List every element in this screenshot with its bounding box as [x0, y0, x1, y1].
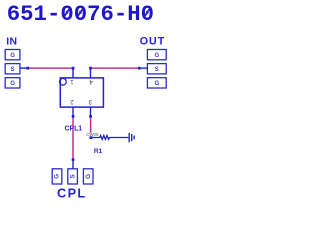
- ground bar 2: [131, 134, 133, 141]
- svg-text:IN: IN: [6, 36, 17, 47]
- slash of zero 2: [78, 9, 83, 17]
- pin 2 lead: [72, 107, 74, 116]
- OUT pad box G (top): [147, 50, 166, 60]
- wire to CPL junction dot: [72, 158, 75, 161]
- IN port stub: [20, 67, 27, 69]
- CPL port stub: [72, 161, 74, 169]
- wire pin 2 to CPL port: [72, 118, 74, 158]
- svg-text:OUT: OUT: [140, 35, 166, 47]
- CPL pad box S (middle): [68, 169, 78, 184]
- svg-text:S: S: [155, 67, 159, 73]
- junction dot pin 4: [89, 67, 92, 70]
- slash of zero 1: [64, 9, 69, 17]
- svg-text:CPL: CPL: [57, 186, 87, 200]
- OUT pad box G (bottom): [147, 78, 166, 88]
- ground bar 3: [133, 136, 135, 140]
- svg-text:R1: R1: [94, 148, 103, 155]
- svg-text:CW05: CW05: [86, 132, 99, 137]
- junction dot at IN port: [26, 67, 29, 70]
- junction dot at R1: [90, 136, 93, 139]
- svg-text:2: 2: [70, 98, 74, 105]
- svg-text:S: S: [69, 174, 76, 179]
- junction dot pin 2: [72, 115, 75, 118]
- junction dot pin 3: [89, 115, 92, 118]
- slash of zero 3: [144, 9, 149, 17]
- polarity circle: [60, 78, 67, 85]
- IN pad box G (bottom): [5, 78, 20, 88]
- CPL pad box G (left): [52, 169, 62, 184]
- coupler U1 body: [60, 78, 103, 107]
- resistor R1: [91, 136, 128, 140]
- pin 4 lead: [90, 68, 92, 78]
- svg-text:G: G: [54, 174, 61, 179]
- CPL pad box G (right): [83, 169, 93, 184]
- pin 1 lead: [72, 68, 74, 78]
- svg-text:G: G: [10, 81, 15, 87]
- ground bar 1: [128, 133, 130, 143]
- svg-text:G: G: [154, 81, 159, 87]
- svg-text:3: 3: [88, 98, 92, 105]
- svg-text:G: G: [10, 53, 15, 59]
- svg-text:651-0076-H0: 651-0076-H0: [7, 1, 154, 27]
- svg-text:S: S: [11, 67, 15, 73]
- wire IN to pin 1: [29, 67, 72, 69]
- junction dot at OUT port: [138, 67, 141, 70]
- OUT pad box S: [147, 64, 166, 74]
- svg-text:G: G: [85, 174, 92, 179]
- svg-text:4: 4: [89, 78, 93, 85]
- wire pin 4 to OUT: [92, 67, 138, 69]
- wire pin 3 down to R1: [90, 118, 92, 138]
- svg-text:G: G: [154, 53, 159, 59]
- pin 3 lead: [90, 107, 92, 116]
- IN pad box G (top): [5, 50, 20, 60]
- junction dot pin 1: [72, 67, 75, 70]
- net label: [86, 133, 99, 137]
- IN pad box S: [5, 64, 20, 74]
- svg-text:1: 1: [70, 78, 74, 85]
- OUT port stub: [141, 67, 148, 69]
